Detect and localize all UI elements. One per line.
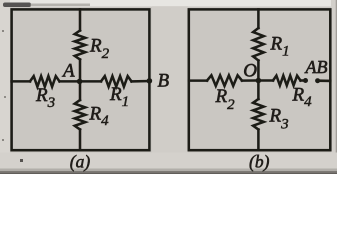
wire: (a) left edge to R3 xyxy=(12,80,30,83)
node O (b) junction dot xyxy=(256,78,262,84)
resistor R1 (b) xyxy=(253,28,264,61)
node B (a) junction dot xyxy=(147,78,153,84)
wire: R1 to node B xyxy=(132,80,150,83)
node A (a) junction dot xyxy=(77,79,83,85)
wire: (b) left edge to R2 xyxy=(189,79,207,82)
wire: R4 to terminal A xyxy=(301,79,306,82)
wire: node O to R3 xyxy=(257,81,260,100)
resistor R4 xyxy=(75,100,86,130)
wire: R3 to (b) bottom edge xyxy=(257,130,260,151)
wire: terminal B to (b) right edge xyxy=(318,79,331,82)
wire: R2 to node A xyxy=(79,60,82,82)
svg-text:B: B xyxy=(158,71,170,92)
svg-text:AB: AB xyxy=(305,57,328,77)
terminal A (b) dot xyxy=(303,78,308,83)
resistor R1 xyxy=(101,76,132,87)
resistor R4 (b) xyxy=(273,76,301,86)
resistor R2 xyxy=(75,31,86,60)
wire: circuit (b) outer rectangle loop xyxy=(189,9,330,150)
svg-text:(a): (a) xyxy=(70,152,91,172)
wire: R3 to node A xyxy=(60,80,80,83)
svg-text:A: A xyxy=(61,60,75,81)
wire: node A to R4 xyxy=(79,81,82,100)
wire: R1 to node O xyxy=(257,61,260,81)
svg-text:O: O xyxy=(243,61,257,82)
resistor R2 (b) xyxy=(207,75,242,86)
wire: R4 to (a) bottom edge xyxy=(79,130,82,151)
wire: node O to R4 xyxy=(258,79,273,82)
wire: node A to R1 xyxy=(80,80,101,83)
wire: R2 to node O xyxy=(242,79,258,82)
wire: circuit (a) outer rectangle loop xyxy=(12,9,150,150)
resistor R3 (b) xyxy=(253,99,264,130)
svg-text:(b): (b) xyxy=(249,152,270,172)
resistor R3 xyxy=(30,76,60,87)
wire: (a) top edge to R2 xyxy=(79,9,82,30)
wire: (b) top edge to R1 xyxy=(257,9,260,28)
terminal B (b) dot xyxy=(315,78,320,83)
